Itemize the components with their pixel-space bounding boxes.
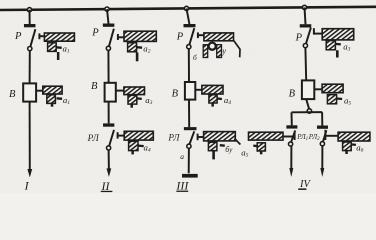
ground terminal bar, feeder 3 [182, 174, 198, 178]
ground bar (hatched), feeder 1 top [44, 33, 74, 41]
wire split header, feeder 4 [292, 111, 323, 113]
svg-text:В: В [91, 81, 98, 92]
node: bus tap 1 [27, 8, 31, 12]
wire ground bar to RL1 contact [283, 136, 295, 138]
busbar [0, 7, 376, 10]
ground bar (hatched), feeder 2 bottom [124, 131, 153, 140]
wire from ground bar down right, feeder 3 [234, 40, 241, 57]
contact bar of disconnector P2 [103, 24, 115, 27]
breaker B1 box [23, 83, 36, 101]
grounding switch box, feeder 3 bottom [208, 142, 217, 151]
grounding switch box, bottom-right [343, 142, 352, 151]
arrow head, feeder 2 [107, 168, 112, 177]
svg-text:IV: IV [299, 179, 311, 190]
breaker B4 box [302, 80, 314, 99]
wire contact to ground bar a1 [39, 35, 44, 37]
line disconnector RL2 pivot (right) [320, 142, 324, 146]
grounding switch a1 box [48, 43, 57, 52]
ground bar (hatched), feeder 3 bottom [204, 132, 236, 141]
ground bar (hatched), feeder 1 mid [43, 86, 62, 94]
svg-text:РЛ: РЛ [87, 133, 100, 143]
svg-text:В: В [172, 88, 179, 99]
wire bus to contact, feeder 2 [107, 9, 109, 24]
wire drop left branch [291, 112, 293, 125]
grounding switch blade, feeder 4 mid [337, 97, 343, 100]
contact bar of line disconnector RL1 [286, 125, 297, 128]
node: bus tap 2 [105, 7, 109, 11]
wire disconnector to breaker, feeder 2 [107, 50, 109, 82]
ground stake tick, bottom-right [345, 151, 348, 154]
wire RL2 contact to ground bar [325, 135, 338, 137]
grounding switch blade, feeder 3 bottom [220, 144, 225, 147]
ground bar (hatched), feeder 4 top [322, 29, 354, 40]
ground bar (hatched), feeder 3 top [204, 33, 234, 41]
disconnector P3 pivot [187, 45, 191, 49]
breaker B2 box [105, 83, 116, 102]
grounding switch blade, feeder 3 mid [217, 97, 222, 100]
svg-text:а: а [180, 152, 184, 161]
wire from bar down right (to label), feeder 3 bottom [234, 138, 240, 144]
breaker B3 box [185, 82, 195, 100]
grounding switch a2 box [128, 43, 137, 52]
grounding switch a4 blade [138, 144, 144, 147]
wire to ground, feeder 3 [188, 148, 190, 173]
disconnector P3 blade [189, 28, 194, 45]
line disconnector RL1 fixed contact [294, 132, 296, 140]
grounding switch box, feeder 3 mid [209, 95, 217, 103]
contact bar of line disconnector RL2r [317, 126, 328, 129]
svg-text:В: В [9, 89, 16, 100]
underline of label II [101, 191, 113, 192]
grounding switch blade, feeder 1 mid [57, 97, 63, 100]
disconnector P4 fixed contact [313, 28, 315, 34]
node: bus tap 4 [302, 5, 306, 9]
svg-text:В: В [289, 89, 296, 100]
wire breaker to ground bar, feeder 4 [314, 88, 322, 90]
disconnector P1 blade [30, 29, 35, 47]
wire breaker to ground bar, feeder 2 [116, 90, 125, 92]
contact bar of disconnector P1 [24, 24, 36, 27]
ground stake tick, feeder 4 top [336, 50, 339, 57]
wire bus to contact, feeder 4 [305, 7, 306, 24]
line disconnector RL2 fixed contact (right) [324, 130, 326, 140]
grounding switch box, feeder 4 mid [327, 95, 336, 104]
ground stake tick, feeder 3 mid [211, 103, 214, 106]
node: bus tap 3 [184, 6, 188, 10]
svg-text:РЛ: РЛ [167, 133, 180, 143]
ground bar (hatched), feeder 2 top [124, 31, 156, 41]
wire breaker to ground bar, feeder 3 [195, 89, 202, 91]
wire to line II [108, 150, 110, 170]
wire breaker to junction, feeder 4 [306, 99, 309, 109]
grounding switch box, bottom-left [257, 143, 265, 151]
svg-text:бу: бу [225, 145, 233, 154]
portable ground clamp ring, feeder 3 [209, 43, 216, 50]
ground bar (hatched), feeder 4 bottom-right [338, 132, 370, 141]
grounding switch blade, bottom-left [253, 144, 257, 147]
svg-text:Р: Р [176, 31, 184, 42]
portable ground leg right, feeder 3 [217, 45, 222, 58]
line disconnector RL1 pivot [289, 142, 293, 146]
ground stake tick, bottom-left [260, 151, 263, 154]
grounding switch box, feeder 2 mid [128, 95, 137, 104]
ground stake tick, feeder 2 bottom [131, 151, 134, 155]
svg-text:Р: Р [295, 32, 303, 43]
ground bar (hatched), feeder 3 mid [202, 85, 223, 94]
ground stake tick, feeder 2 mid [131, 104, 134, 107]
svg-text:II: II [101, 179, 111, 193]
ground bar (hatched), feeder 4 bottom-left [249, 132, 284, 140]
grounding switch a1 blade [56, 46, 62, 49]
grounding switch a3 blade [336, 43, 341, 46]
ground stake tick, feeder 1 mid [51, 103, 54, 106]
ground stake tick, feeder 2 top [136, 53, 139, 62]
line disconnector RL3 blade [189, 131, 194, 144]
line disconnector RL2 pivot [107, 146, 111, 150]
svg-text:Р: Р [91, 27, 99, 38]
line disconnector RL3 fixed contact [197, 134, 199, 141]
underline of label III [176, 191, 188, 192]
line disconnector RL1 blade [291, 130, 295, 142]
wire contact to ground bar a2 [118, 36, 125, 38]
arrow head, feeder 1 [27, 169, 32, 178]
svg-text:Р: Р [14, 31, 22, 42]
wire to line IV left [290, 146, 292, 170]
grounding switch blade, feeder 2 mid [137, 97, 142, 100]
underline of label IV [298, 188, 306, 190]
disconnector P1 fixed contact [38, 33, 40, 39]
arrow head, feeder 4 left [289, 168, 293, 177]
wire disconnector to breaker, feeder 4 [304, 48, 307, 81]
disconnector P3 fixed contact [197, 32, 199, 38]
disconnector P4 pivot [303, 44, 307, 48]
svg-text:б: б [193, 53, 197, 62]
disconnector P2 blade [109, 29, 114, 47]
wire to line IV right [321, 146, 323, 170]
portable ground leg left, feeder 3 [203, 45, 208, 58]
disconnector P1 pivot [28, 47, 32, 51]
wire disconnector to breaker, feeder 1 [29, 51, 31, 84]
contact bar of line disconnector RL2 [103, 123, 114, 126]
line disconnector RL2 blade (right) [323, 130, 327, 142]
contact bar of line disconnector RL3 [184, 127, 197, 130]
line disconnector RL2 fixed contact [117, 132, 119, 138]
wire breaker to line I [29, 102, 31, 171]
grounding switch blade, bottom-right [351, 143, 356, 146]
line disconnector RL3 pivot [187, 144, 191, 148]
wire contact to ground bar, feeder 3 bottom [198, 136, 204, 138]
grounding switch a4 box [129, 141, 138, 150]
wire bus to contact, feeder 3 [187, 8, 190, 24]
contact bar of disconnector P4 [300, 24, 312, 27]
ground bar (hatched), feeder 4 mid [322, 84, 343, 93]
wire contact to ground bar, feeder 3 [198, 34, 204, 36]
wire bus to contact, feeder 1 [29, 10, 31, 25]
wire breaker to ground bar, feeder 1 [36, 90, 43, 92]
grounding switch a3 box [326, 41, 335, 50]
wire breaker to line disconnector, feeder 3 [188, 100, 190, 128]
ground stake tick, feeder 3 bottom [212, 151, 215, 160]
wire contact to ground bar a4 [118, 135, 125, 137]
wire contact to ground bar a3, feeder 4 [314, 33, 323, 35]
wire disconnector to breaker, feeder 3 [188, 49, 190, 82]
ground stake tick, feeder 1 top [57, 52, 60, 60]
ground bar (hatched), feeder 2 mid [124, 87, 145, 95]
line disconnector RL2 blade [109, 130, 114, 146]
wire breaker to line disconnector, feeder 2 [108, 102, 110, 124]
arrow head, feeder 4 right [320, 168, 324, 177]
contact bar of disconnector P3 [184, 24, 196, 27]
disconnector P4 blade [306, 28, 311, 44]
wire drop right branch [321, 112, 323, 125]
svg-text:у: у [221, 46, 226, 55]
disconnector P2 fixed contact [117, 34, 119, 40]
grounding switch box, feeder 1 mid [47, 95, 56, 104]
grounding switch a2 blade [137, 46, 143, 49]
junction node, feeder 4 [307, 109, 311, 113]
svg-text:III: III [175, 178, 189, 192]
disconnector P2 pivot [106, 46, 110, 50]
